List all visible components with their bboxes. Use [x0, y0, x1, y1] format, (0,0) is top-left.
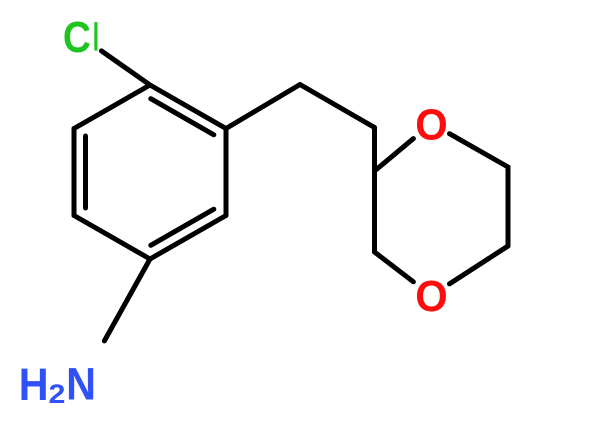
bond CH-A vertical: [372, 128, 377, 172]
bond C-N (aniline): [104, 259, 150, 341]
bond B2-O bottom: [375, 252, 414, 282]
svg-text:H: H: [19, 361, 49, 411]
bond benzene edge 3: [150, 216, 226, 260]
bond A-O top: [375, 139, 414, 171]
bond benzene edge 1: [150, 85, 226, 129]
bond D-O top: [450, 134, 509, 167]
atom label Cl : l glyph: [94, 22, 97, 50]
bond CH2-CH: [300, 85, 375, 128]
svg-text:N: N: [66, 360, 96, 410]
double bond inner line UL-LL: [83, 136, 88, 208]
double bond inner line T-UR: [151, 99, 214, 135]
double bond inner line LR-B: [151, 209, 214, 245]
bond benzene edge 5: [72, 129, 77, 216]
bond C-Cl: [102, 51, 151, 85]
svg-text:C: C: [63, 13, 91, 61]
bond benzene edge 4: [74, 216, 150, 260]
svg-text:O: O: [415, 272, 447, 321]
bond A-B2 left edge: [372, 171, 377, 252]
svg-text:2: 2: [49, 379, 66, 409]
bond ring-CH2: [226, 85, 300, 129]
bond benzene edge 2: [224, 129, 229, 216]
svg-text:O: O: [415, 101, 447, 150]
bond benzene edge 6: [74, 85, 150, 129]
bond C-O bottom: [450, 246, 509, 284]
bond D-C right edge: [506, 167, 511, 246]
